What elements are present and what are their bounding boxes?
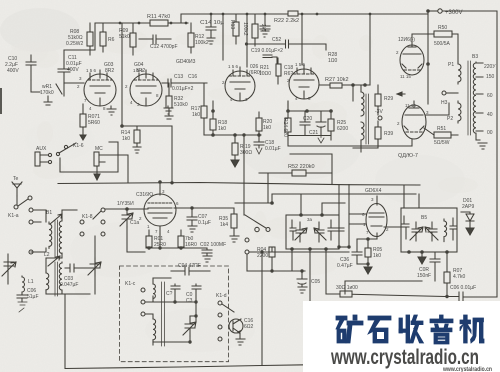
svg-text:400V: 400V [67,67,79,73]
IF transformer T2 coil [361,92,364,116]
svg-text:1k0: 1k0 [263,125,271,131]
resistor R21 [276,64,281,76]
transformer B3 primary P2 [458,101,461,123]
resistor R02 [178,236,184,247]
capacitor C02 [202,248,212,256]
osc variable cap [183,316,196,336]
wire x223 down [222,14,224,60]
transistor C16 [229,319,243,333]
osc T1 coil bottom [153,318,156,342]
switch K1-d contacts [218,301,222,305]
resistor R01 [146,236,152,247]
svg-text:B3: B3 [472,54,478,60]
variable cap C1b [88,258,101,276]
svg-text:4.7k0: 4.7k0 [453,274,465,280]
wire jack bus y172 [60,142,128,183]
wire V8 plate y227 to B5 [384,226,401,228]
capacitor C18 [254,135,264,148]
svg-text:R6?: R6? [284,71,293,77]
svg-text:3a: 3a [307,217,313,222]
resistor R35 [231,214,237,228]
svg-text:R39: R39 [384,131,393,137]
node dot C1a [125,207,129,211]
wire top rail right y14 [181,14,428,23]
ground L1/C06 [18,302,27,312]
transformer B3 primary P1 [458,62,461,84]
osc T1 wires [145,278,171,345]
svg-text:51k0: 51k0 [119,34,130,40]
capacitor C06 [17,293,27,302]
svg-text:8R2: 8R2 [105,68,114,74]
resistor R18 [210,119,216,130]
transformer L2 adjust arrow [48,256,60,266]
wire C36 R05 bottom [357,263,368,265]
T3 left cap [290,220,296,240]
osc transformer T1 coil top [153,284,155,299]
ground arrow under D01 [466,226,474,235]
transformer B1 secondary [59,220,62,254]
resistor R14 [134,130,140,143]
wire y294 [326,281,497,297]
arrow left at V7 bottom [397,92,405,96]
T3 top dots [299,213,303,217]
svg-text:L1: L1 [28,279,34,285]
wire x370 rail down [369,14,371,85]
B5 left cap [402,216,409,239]
svg-text:8R2: 8R2 [136,68,145,74]
capacitor C03 [65,264,90,272]
resistor R52 [292,170,306,176]
osc var cap bottom [153,316,196,342]
resistor R25 [328,119,334,131]
capacitor C10 [26,55,36,80]
svg-text:500/5A: 500/5A [434,41,451,47]
wire R52 y173 [259,172,332,174]
svg-text:11 15: 11 15 [405,103,416,108]
svg-text:C52: C52 [272,37,281,43]
B5 bottom dots [407,250,411,254]
wire V8 cathode row y239 [357,238,377,240]
ground arrow below B5 [418,252,426,264]
svg-text:K1-c: K1-c [125,281,136,287]
osc T1 core [162,282,165,346]
node dot y203 [270,201,274,205]
wire C1a down [127,227,145,252]
ground C18 [256,148,262,154]
svg-text:R6: R6 [108,37,115,43]
osc capacitor Ca [171,284,180,302]
svg-text:C12 4700pF: C12 4700pF [150,44,178,50]
wire y136 bias bottom [288,131,331,136]
svg-text:C14 10µ: C14 10µ [200,20,224,26]
wire y135 [204,134,261,136]
ground arrow under MC [94,166,100,180]
capacitor C05 [297,271,307,287]
capacitor C13 [162,79,207,87]
tube V7 rectifier [400,45,424,75]
svg-text:QД/Ю-7: QД/Ю-7 [398,153,418,159]
capacitor C12 [139,35,171,44]
svg-text:300Ω: 300Ω [240,150,252,156]
antenna Te [12,182,22,196]
svg-text:16R0: 16R0 [185,242,197,248]
wire y203 left [235,135,272,215]
transformer B1 adjust arrow [50,214,62,224]
svg-text:00: 00 [487,130,493,136]
node dots on rails [119,9,430,24]
ground arrow y137 [318,136,324,144]
ground R35 [230,236,239,242]
wires below T3 [292,249,326,365]
ground under wR1 [44,96,52,105]
coil L1 [22,276,25,293]
svg-text:30Ω 1и00: 30Ω 1и00 [336,285,358,291]
ground C05 [298,287,307,293]
wire pin6 to R35 [192,207,234,209]
B3 secondary ground [476,137,487,149]
wire V1 grid [64,82,84,84]
B3 core [468,61,471,135]
resistor R07 top left [80,114,86,127]
svg-text:C06 0.01µF: C06 0.01µF [450,285,476,291]
svg-text:1k0: 1k0 [218,126,226,132]
svg-text:1/Y35И: 1/Y35И [117,201,134,207]
resistor R08 [87,32,93,46]
svg-text:1 5 6: 1 5 6 [228,64,239,69]
resistor R07b [444,272,450,283]
T3 trimmer cap left [295,222,307,242]
char 石 [368,316,391,343]
svg-text:R50: R50 [438,25,447,31]
svg-text:C05: C05 [311,279,320,285]
ground under C14 [207,38,215,44]
osc capacitor Cb [192,284,201,302]
svg-text:60: 60 [487,93,493,99]
ground C02 [203,256,212,262]
svg-text:1k0: 1k0 [373,253,381,259]
wire y125 [122,125,172,127]
svg-text:R29: R29 [384,96,393,102]
T3 risers [301,194,345,215]
right edge vertical x497 [443,11,497,297]
svg-text:0.01µF×2: 0.01µF×2 [172,86,194,92]
svg-text:1k0: 1k0 [122,136,130,142]
svg-text:R27 10k2: R27 10k2 [325,77,349,83]
svg-text:C02 100MF: C02 100MF [200,242,226,248]
wire V6 grid from y146 [411,139,413,146]
svg-text:R51: R51 [437,126,446,132]
node dots R27 wire [351,83,355,87]
tube V5 converter [144,194,176,226]
svg-text:400V: 400V [7,68,19,74]
B5 trimmer left [410,222,423,241]
wire V6 plate to P2 [426,103,449,115]
main bus y184 [58,183,420,186]
scan left edge mark [0,88,2,114]
svg-text:-3V: -3V [375,109,383,115]
T3 bottom dots [290,247,294,251]
capacitor C19 [263,55,277,64]
wire between tubes x122 [121,23,123,127]
svg-text:6200: 6200 [337,126,348,132]
svg-text:C19 0.01µF×2: C19 0.01µF×2 [251,48,283,54]
svg-text:R24 620: R24 620 [282,118,288,137]
wire x302 rail to V4 [301,14,303,65]
capacitor C04 [171,267,210,275]
osc terminal circles [141,288,145,292]
resistor R22 [288,11,298,16]
svg-text:B1: B1 [46,210,52,216]
tube V6 output [402,105,426,139]
ground transistor [236,333,245,345]
capacitor C20 [300,111,310,136]
resistor R06 [340,291,352,297]
T3 trimmer cap right [314,222,326,242]
svg-text:12И6(-): 12И6(-) [398,37,415,43]
svg-text:5R60: 5R60 [88,120,100,126]
svg-text:1 5 6: 1 5 6 [295,62,306,67]
B5 right cap [450,218,457,240]
switch K1-a [14,205,18,209]
svg-text:K1-a: K1-a [8,213,19,219]
B3 secondary tapped [473,62,476,136]
T3 right cap [328,220,335,240]
wire x172 down to bus [171,126,173,183]
resistor R12 [188,33,194,47]
capacitor C52 [247,40,327,50]
variable cap C1a [120,209,133,227]
ground C07 [188,226,197,232]
svg-text:5Ω/5W: 5Ω/5W [434,140,450,146]
svg-text:K1-8: K1-8 [82,214,93,220]
B5 risers from bus [404,185,419,208]
wire AGC y252 [249,251,349,253]
wire x349 riser [339,185,349,247]
terminal circles B1 left [29,208,33,212]
wire V5 cathode to osc [159,234,161,248]
B5 trimmer right [425,222,438,241]
capacitor C11 [58,50,70,83]
svg-text:51µF: 51µF [27,294,39,300]
oscillator dashed box [120,266,229,362]
B3 tap stubs [476,63,483,131]
B5 coil right [444,219,447,242]
svg-text:MC: MC [95,146,103,152]
svg-text:K1-d: K1-d [216,293,227,299]
capacitor C14 [206,14,216,38]
ground arrow under R05 [364,264,372,274]
wire top rail left y23 [64,23,188,50]
ground R14 [133,147,141,153]
capacitor C21 [316,111,326,136]
tube V8 [366,204,387,237]
resistor R09 [130,33,136,47]
capacitor C36 [352,239,362,264]
wire x247 down [246,254,248,271]
capacitor C08 [430,252,440,281]
resistor R16 [252,24,258,38]
transformer B1 primary [49,222,52,248]
wire V7 plate to R50 [412,34,434,38]
transformer L2 primary [46,272,49,291]
svg-text:R13: R13 [229,20,235,29]
char 机 [460,315,484,343]
jack MC [94,152,99,166]
svg-text:2200: 2200 [257,253,268,259]
svg-text:6Ω2: 6Ω2 [244,324,254,330]
ground arrow under R07 [80,127,86,140]
ground V2 cathode [164,106,173,114]
svg-text:www.crystalradio.cn: www.crystalradio.cn [330,346,479,369]
resistor R05 [365,248,371,257]
ground V1 cathode [107,106,116,115]
wire y194 [272,193,416,195]
wire x272 riser [268,173,272,203]
svg-text:1k0: 1k0 [192,112,200,118]
resistor R11 [150,20,168,26]
resistor R13 vertical label [233,22,239,36]
IF can T3 box [286,215,339,249]
svg-text:K1-6: K1-6 [73,143,84,149]
wire V4 cathode row y111 [288,101,331,111]
switch K1-6 [56,152,59,155]
wire y146 to output grid [288,136,412,147]
svg-text:0.01µF: 0.01µF [265,146,281,152]
svg-text:220У: 220У [484,64,496,70]
potentiometer wR1 [31,80,64,96]
IF can B5 box [401,208,457,252]
dots x339 x349 y247 [337,245,340,248]
svg-text:H3: H3 [441,100,448,106]
capacitor C07 [176,208,197,226]
svg-text:www.crystalradio.cn: www.crystalradio.cn [442,367,492,372]
svg-text:510k0: 510k0 [174,102,188,108]
ground under C17 [261,31,269,37]
wire V5 plate to bus [159,182,161,188]
svg-text:P1: P1 [448,62,454,68]
svg-text:C316Ю: C316Ю [136,192,153,198]
wire y248 [146,247,207,249]
node dot x122 y126 [120,124,124,128]
svg-text:150: 150 [486,74,495,80]
watermark background [303,301,500,372]
watermark Chinese text 矿石收音机 drawn as paths [336,315,484,344]
B1 core [55,220,58,258]
svg-text:11 15: 11 15 [400,74,411,79]
svg-text:0.25W2: 0.25W2 [66,41,83,47]
char 矿 [336,315,363,343]
diode D01 [461,212,474,226]
node dots y135 [211,133,215,137]
resistor R20 [256,118,262,131]
svg-text:GD6X4: GD6X4 [365,188,382,194]
tube V4 [289,69,319,99]
svg-text:150пF: 150пF [417,273,431,279]
wire feedback y154 [290,154,332,184]
svg-text:C1a: C1a [130,220,139,226]
switch K1-8 contacts [101,208,105,212]
svg-text:1Ω0: 1Ω0 [328,58,338,64]
svg-text:C3: C3 [186,298,193,304]
svg-text:2AP9: 2AP9 [462,204,474,210]
wire x262 down to bottom bus [261,252,263,366]
svg-text:0.047µF: 0.047µF [60,282,78,288]
svg-text:C20: C20 [303,116,312,122]
tube V4 bias network: resistor R24 [285,118,291,132]
svg-text:Te: Te [13,176,19,182]
capacitor x339 [335,228,344,247]
node dot R18 [211,109,215,113]
L2 core [55,262,58,296]
ground R32 [165,116,173,119]
osc bottom row y302 [145,302,196,316]
svg-text:GD40И3: GD40И3 [176,59,196,65]
svg-text:40: 40 [487,112,493,118]
B3 terminal circle H3 [442,91,446,95]
svg-text:0.47µF: 0.47µF [337,263,353,269]
svg-text:10Ω0: 10Ω0 [259,71,271,77]
tuning gang C1 left [2,254,16,276]
resistor R6 [100,32,106,46]
resistor R50 [434,31,452,37]
resistor R19 [232,143,238,155]
L2 bottom wires [46,290,90,294]
capacitor C17 [260,14,270,31]
resistor R17 [201,106,207,118]
svg-text:0.1µF: 0.1µF [198,220,211,226]
resistor R32 [166,96,172,108]
wire y271 [247,270,305,272]
svg-text:R52 220k0: R52 220k0 [288,164,315,170]
tube V3 [225,71,255,101]
B+ vertical x428 [427,11,429,104]
resistor R29 [375,94,381,106]
tube V1 [84,74,116,106]
svg-text:100k2: 100k2 [195,40,209,46]
svg-text:AUX: AUX [36,146,47,152]
ground arrow under R19 [231,160,239,167]
tube V2 [130,74,162,106]
capacitor C06 [459,292,463,302]
switch K2 contacts [255,227,259,231]
wire K1-8 to grid y209 [105,208,148,210]
resistor R51 [434,132,451,138]
resistor R27 [330,83,342,88]
resistor R04 [269,247,275,257]
svg-text:B5: B5 [421,215,427,221]
svg-text:C?: C? [166,291,173,297]
svg-text:1k4: 1k4 [220,222,228,228]
svg-text:P2: P2 [447,116,453,122]
terminal circle B1 bottom [29,250,33,254]
char 音 [430,315,453,344]
svg-text:C16: C16 [188,74,197,80]
svg-text:1 5 6: 1 5 6 [86,68,97,73]
svg-text:170k0: 170k0 [40,90,54,96]
bottom bus y368 [65,294,305,369]
terminal +300V [428,10,437,12]
svg-text:R11 47k0: R11 47k0 [147,14,170,20]
char 收 [399,315,424,343]
wire x247 rail to V3 [246,14,248,67]
svg-text:R22 2.2k2: R22 2.2k2 [274,18,299,24]
B1 wires [31,210,77,272]
jack AUX [35,152,40,166]
svg-text:L2: L2 [44,252,50,258]
wire y281 [345,280,422,282]
svg-text:C13: C13 [174,74,183,80]
wire y148 T2 bottom [353,85,378,148]
